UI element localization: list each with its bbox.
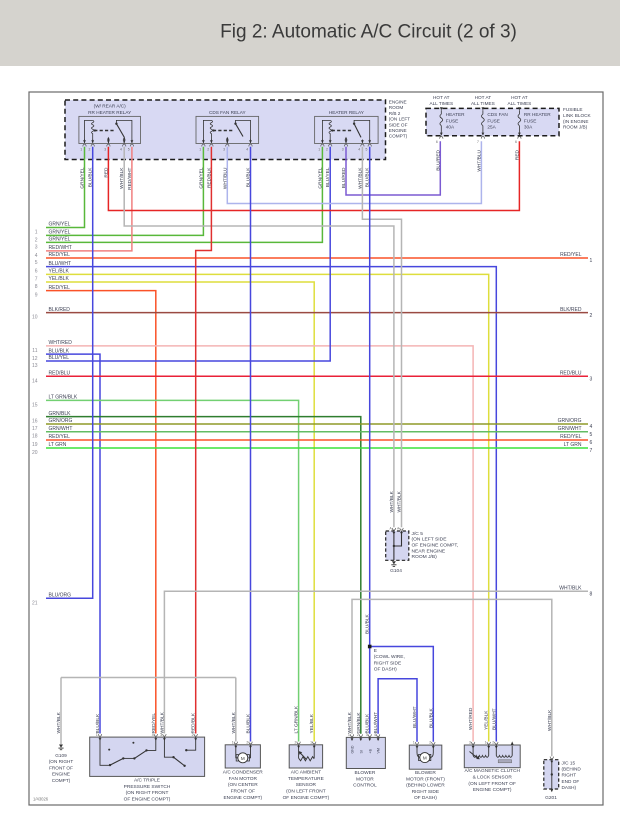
svg-text:RED/BLU: RED/BLU — [49, 371, 71, 377]
svg-text:GRN/WHT: GRN/WHT — [558, 426, 582, 432]
clutch pin numbers — [469, 741, 494, 745]
svg-text:1: 1 — [590, 258, 593, 264]
svg-text:PRESSURE SWITCH: PRESSURE SWITCH — [124, 784, 171, 790]
wire RED relay1 pin3 to RR HEATER fuse — [108, 141, 519, 210]
svg-text:(ON LEFT SIDE: (ON LEFT SIDE — [412, 537, 448, 543]
svg-text:(ON LEFT FRONT OF: (ON LEFT FRONT OF — [468, 781, 516, 787]
svg-text:MOTOR: MOTOR — [356, 776, 374, 782]
wire row 6 BLU/WHT — [46, 267, 496, 742]
wire row 10 BLK/RED — [46, 312, 588, 314]
wire row 16 GRN/BLK — [46, 417, 361, 734]
svg-text:ENGINE: ENGINE — [389, 100, 407, 105]
svg-text:17: 17 — [32, 426, 38, 432]
svg-text:1/43026: 1/43026 — [33, 797, 49, 802]
svg-text:GRN/WHT: GRN/WHT — [49, 426, 73, 432]
svg-text:WHT/BLK: WHT/BLK — [347, 711, 353, 733]
svg-text:YEL/BLK: YEL/BLK — [309, 713, 315, 733]
svg-text:BLOWER: BLOWER — [415, 770, 436, 776]
svg-text:GRN/YEL: GRN/YEL — [49, 237, 71, 243]
ground G109 — [58, 745, 63, 750]
wire row 20 LT GRN — [46, 447, 588, 449]
hot at all times label — [508, 95, 532, 106]
svg-text:HEATER: HEATER — [446, 112, 465, 117]
svg-text:(ON LEFT FRONT: (ON LEFT FRONT — [286, 789, 326, 795]
svg-text:4: 4 — [590, 424, 593, 430]
svg-text:TEMPERATURE: TEMPERATURE — [288, 776, 324, 782]
wire row 21 BLU/ORG — [46, 147, 93, 599]
condenser fan label — [223, 770, 264, 801]
wire WHT/BLK relay3 pin4 to J/C 5 — [362, 147, 401, 527]
svg-text:G109: G109 — [55, 753, 67, 758]
svg-text:2: 2 — [89, 147, 91, 151]
svg-text:(ON CENTER: (ON CENTER — [228, 782, 258, 788]
svg-text:RED/YEL: RED/YEL — [560, 252, 582, 258]
svg-text:ALL TIMES: ALL TIMES — [508, 101, 532, 106]
svg-text:BLU/WHT: BLU/WHT — [412, 706, 418, 728]
relay HEATER RELAY — [315, 110, 379, 147]
svg-text:ENGINE: ENGINE — [52, 772, 70, 777]
fuse CDS FAN 25A — [481, 107, 484, 139]
svg-text:DASH): DASH) — [562, 785, 577, 790]
svg-text:BLU/BLK: BLU/BLK — [428, 707, 434, 728]
svg-text:RED/WHT: RED/WHT — [49, 245, 72, 251]
fuse CDS FAN 25A label — [487, 112, 507, 129]
svg-text:BLOWER: BLOWER — [355, 770, 376, 776]
svg-text:HEATER RELAY: HEATER RELAY — [329, 110, 365, 115]
svg-text:40A: 40A — [446, 124, 455, 129]
svg-text:RED/YEL: RED/YEL — [151, 713, 157, 734]
wire RED/BLK relay2 pin2 to pressure switch — [196, 147, 212, 734]
svg-text:30A: 30A — [524, 124, 533, 129]
svg-text:GRN/ORG: GRN/ORG — [49, 418, 73, 424]
svg-text:OF DASH): OF DASH) — [414, 795, 437, 801]
svg-text:VM: VM — [377, 748, 381, 753]
junction connector J/C 5 — [386, 528, 409, 560]
svg-text:4: 4 — [152, 733, 154, 737]
svg-text:11: 11 — [32, 348, 37, 354]
pressure switch label — [124, 778, 171, 803]
svg-text:5: 5 — [590, 432, 593, 438]
svg-text:1: 1 — [310, 740, 312, 744]
fuse pin numbers — [436, 140, 517, 144]
svg-text:HOT AT: HOT AT — [433, 95, 450, 100]
svg-text:OF ENGINE COMPT,: OF ENGINE COMPT, — [412, 543, 459, 549]
svg-text:20: 20 — [32, 450, 38, 456]
svg-text:& LOCK SENSOR: & LOCK SENSOR — [473, 775, 513, 781]
svg-text:A/C CONDENSER: A/C CONDENSER — [223, 770, 264, 776]
svg-text:2: 2 — [429, 741, 431, 745]
svg-text:ENGINE: ENGINE — [389, 128, 407, 133]
svg-text:A/C AMBIENT: A/C AMBIENT — [291, 770, 321, 776]
pressure switch pin numbers — [96, 733, 194, 737]
wire WHT/BLK rail to G109 — [60, 678, 62, 745]
svg-text:ROOM J/B): ROOM J/B) — [412, 554, 438, 560]
svg-text:SENSOR: SENSOR — [296, 782, 317, 788]
svg-text:3: 3 — [366, 733, 368, 737]
svg-text:FUSIBLE: FUSIBLE — [563, 107, 583, 112]
svg-text:RED/BLK: RED/BLK — [191, 712, 197, 733]
svg-text:BLK/RED: BLK/RED — [560, 307, 582, 313]
svg-text:GRN/BLK: GRN/BLK — [49, 411, 72, 417]
blower control pin numbers — [348, 733, 376, 737]
wire row 8 YEL/BLK — [46, 282, 314, 742]
svg-text:3: 3 — [223, 147, 225, 151]
svg-text:10: 10 — [32, 315, 38, 321]
svg-text:1: 1 — [199, 147, 201, 151]
svg-text:LT GRN: LT GRN — [564, 442, 582, 448]
svg-text:RIGHT: RIGHT — [562, 773, 577, 778]
svg-text:A/C MAGNETIC CLUTCH: A/C MAGNETIC CLUTCH — [464, 768, 520, 774]
svg-text:GRN/YEL: GRN/YEL — [49, 222, 71, 228]
engine room relay block R/B 2 (dashed box) — [65, 100, 386, 160]
wire row 13 BLU/YEL — [46, 147, 330, 361]
wire WHT/BLU relay2 pin3 to CDS FAN fuse — [227, 141, 481, 203]
svg-text:RIGHT SIDE: RIGHT SIDE — [412, 789, 439, 795]
svg-text:1: 1 — [35, 230, 38, 236]
svg-text:RED/YEL: RED/YEL — [560, 434, 582, 440]
svg-text:RED/YEL: RED/YEL — [49, 285, 71, 291]
svg-text:2: 2 — [590, 313, 593, 319]
svg-text:2: 2 — [192, 733, 194, 737]
svg-text:Fig 2: Automatic A/C Circuit (: Fig 2: Automatic A/C Circuit (2 of 3) — [220, 22, 517, 43]
svg-text:4: 4 — [374, 733, 376, 737]
svg-text:SIDE OF: SIDE OF — [389, 122, 408, 127]
relay wire colour labels — [80, 167, 371, 190]
svg-text:END OF: END OF — [562, 779, 580, 784]
component A/C magnetic clutch and lock sensor — [464, 741, 520, 767]
svg-text:YEL/BLK: YEL/BLK — [49, 269, 70, 275]
svg-text:BLK/RED: BLK/RED — [49, 307, 71, 313]
fuse HEATER 40A — [440, 107, 443, 139]
blower motor (front) label — [406, 770, 445, 801]
svg-text:16: 16 — [32, 419, 38, 425]
svg-text:1: 1 — [413, 741, 415, 745]
node E junction dot — [368, 645, 372, 649]
wire WHT/BLK ground rail — [61, 677, 236, 679]
svg-text:BLU/ORG: BLU/ORG — [49, 593, 72, 599]
svg-text:GRN/YEL: GRN/YEL — [49, 230, 71, 236]
wire row 3 GRN/YEL — [46, 147, 322, 243]
svg-text:3: 3 — [35, 244, 38, 250]
svg-text:FAN MOTOR: FAN MOTOR — [229, 776, 258, 782]
blower motor pin numbers — [413, 741, 431, 745]
svg-text:(BEHIND LOWER: (BEHIND LOWER — [406, 783, 445, 789]
ambient sensor pin numbers — [295, 740, 313, 744]
wire row 14 RED/BLU — [46, 375, 588, 377]
svg-text:(ON RIGHT: (ON RIGHT — [49, 759, 74, 764]
bottom wire colour labels — [56, 705, 553, 733]
hot at all times label — [471, 95, 495, 106]
J/C 5 pin letters — [390, 527, 401, 531]
svg-text:5: 5 — [366, 147, 368, 151]
svg-text:13: 13 — [32, 363, 38, 369]
svg-text:E: E — [374, 648, 377, 654]
svg-text:3: 3 — [590, 377, 593, 383]
svg-text:OF DASH): OF DASH) — [374, 667, 397, 673]
svg-text:YEL/BLK: YEL/BLK — [484, 710, 490, 730]
svg-text:7: 7 — [590, 448, 593, 454]
svg-text:6: 6 — [35, 269, 38, 275]
wire WHT/BLK rail to pressure switch — [163, 678, 165, 734]
fusible link block label — [563, 107, 591, 129]
svg-text:(ON RIGHT FRONT: (ON RIGHT FRONT — [126, 790, 169, 796]
svg-text:WHT/BLK: WHT/BLK — [389, 490, 395, 512]
fuse HEATER 40A label — [446, 112, 465, 129]
svg-text:CDS FAN RELAY: CDS FAN RELAY — [209, 110, 247, 115]
relay pin numbers — [80, 147, 367, 151]
svg-text:WHT/RED: WHT/RED — [49, 340, 73, 346]
wire row 7 YEL/BLK — [46, 274, 489, 741]
wire row 5 RED/YEL — [46, 257, 588, 259]
ambient sensor label — [283, 770, 330, 801]
component blower motor control — [346, 734, 385, 768]
J/C 5 location label — [412, 531, 459, 560]
svg-text:7: 7 — [35, 276, 38, 282]
component A/C condenser fan motor — [225, 742, 260, 768]
svg-text:G201: G201 — [545, 795, 557, 801]
wire BLU/WHT blower motor control to blower motor front — [378, 679, 417, 742]
svg-text:3: 3 — [160, 733, 162, 737]
svg-text:ALL TIMES: ALL TIMES — [429, 101, 453, 106]
wire WHT/BLK relay1 pin4 to J/C 5 — [124, 147, 394, 527]
labels WHT/BLK at J/C 5 — [389, 490, 403, 512]
relay RR HEATER RELAY — [79, 104, 141, 147]
svg-text:BLU/WHT: BLU/WHT — [49, 261, 72, 267]
wire WHT/BLK row 8 right to ground rail — [164, 591, 588, 677]
svg-text:GRN/ORG: GRN/ORG — [558, 418, 582, 424]
svg-text:A/C TRIPLE: A/C TRIPLE — [134, 778, 160, 784]
engine room R/B 2 location label — [389, 100, 410, 139]
svg-text:1: 1 — [348, 733, 350, 737]
svg-text:6: 6 — [515, 140, 517, 144]
wire BLU/BLK relay2 pin4 to condenser fan motor — [250, 147, 252, 742]
svg-text:SI: SI — [359, 750, 363, 753]
svg-text:2: 2 — [246, 740, 248, 744]
svg-text:3: 3 — [104, 147, 106, 151]
svg-text:2: 2 — [295, 740, 297, 744]
component A/C ambient temperature sensor — [289, 742, 322, 768]
ground G104 — [391, 561, 396, 566]
svg-text:12: 12 — [32, 356, 38, 362]
node E label — [374, 648, 405, 673]
svg-text:WHT/BLK: WHT/BLK — [231, 711, 237, 733]
svg-text:4: 4 — [35, 253, 38, 259]
svg-text:R/B 2: R/B 2 — [389, 111, 401, 116]
svg-text:21: 21 — [32, 600, 38, 606]
svg-text:J/C 15: J/C 15 — [562, 761, 576, 766]
svg-text:9: 9 — [35, 293, 38, 299]
svg-text:8: 8 — [35, 284, 38, 290]
svg-text:ROOM: ROOM — [389, 105, 404, 110]
svg-text:(BEHIND: (BEHIND — [562, 767, 582, 772]
svg-text:5: 5 — [35, 260, 38, 266]
svg-text:G104: G104 — [390, 568, 402, 574]
wire row 18 GRN/WHT — [46, 431, 588, 433]
svg-text:25A: 25A — [487, 124, 496, 129]
wire row 19 RED/YEL — [46, 439, 588, 441]
svg-text:8: 8 — [590, 592, 593, 598]
svg-text:FUSE: FUSE — [524, 118, 537, 123]
svg-text:BLU/BLK: BLU/BLK — [365, 613, 371, 634]
svg-text:RED/YEL: RED/YEL — [49, 434, 71, 440]
wire row 2 GRN/YEL — [46, 147, 203, 236]
svg-text:COMPT): COMPT) — [52, 778, 71, 783]
fuse wire colour labels — [435, 149, 520, 171]
svg-text:(COWL WIRE,: (COWL WIRE, — [374, 654, 405, 660]
svg-text:WHT/BLK: WHT/BLK — [397, 490, 403, 512]
svg-text:2: 2 — [357, 733, 359, 737]
svg-text:4: 4 — [358, 147, 360, 151]
svg-text:6: 6 — [436, 140, 438, 144]
svg-text:4: 4 — [246, 147, 248, 151]
wire WHT/BLK blower motor control GND to J/C 15 — [352, 599, 552, 756]
fuse RR HEATER 30A label — [524, 112, 551, 129]
svg-text:BLU/BLK: BLU/BLK — [95, 713, 101, 734]
svg-text:BLU/BLK: BLU/BLK — [49, 348, 70, 354]
wire WHT/BLK rail to condenser fan motor — [235, 678, 237, 742]
wire row 4 RED/WHT — [46, 147, 132, 251]
wire row 15 LT GRN/BLK — [46, 400, 299, 741]
svg-text:WHT/RED: WHT/RED — [468, 707, 474, 730]
wire BLU/BLK node E to blower motor front — [370, 647, 434, 742]
G109 label — [49, 753, 74, 783]
svg-text:LT GRN/BLK: LT GRN/BLK — [294, 705, 300, 733]
fusible link block (dashed box) — [426, 108, 559, 135]
svg-text:WHT/BLK: WHT/BLK — [56, 711, 62, 733]
wire BLU/BLK relay3 pin5 to node E and blower motor control — [369, 147, 371, 734]
svg-text:LINK BLOCK: LINK BLOCK — [563, 113, 591, 118]
svg-text:RED/YEL: RED/YEL — [49, 252, 71, 258]
svg-text:14: 14 — [32, 378, 38, 384]
svg-text:1: 1 — [318, 147, 320, 151]
svg-text:2: 2 — [326, 147, 328, 151]
wire row 1 GRN/YEL — [46, 147, 85, 228]
svg-text:4: 4 — [120, 147, 122, 151]
svg-text:YEL/BLK: YEL/BLK — [49, 276, 70, 282]
clutch label — [464, 768, 520, 793]
svg-text:1: 1 — [80, 147, 82, 151]
svg-text:BLU/BLK: BLU/BLK — [365, 713, 371, 734]
svg-text:RIGHT SIDE: RIGHT SIDE — [374, 660, 401, 666]
svg-text:2: 2 — [35, 237, 38, 243]
svg-text:NEAR ENGINE: NEAR ENGINE — [412, 548, 446, 554]
svg-text:1: 1 — [232, 740, 234, 744]
svg-text:(W/ REAR A/C): (W/ REAR A/C) — [94, 104, 126, 109]
svg-text:ALL TIMES: ALL TIMES — [471, 101, 495, 106]
svg-text:RR HEATER: RR HEATER — [524, 112, 551, 117]
svg-text:CONTROL: CONTROL — [353, 783, 377, 789]
svg-text:5: 5 — [128, 147, 130, 151]
svg-text:HOT AT: HOT AT — [475, 95, 492, 100]
wire row 12 BLU/BLK — [46, 354, 100, 733]
component A/C triple pressure switch — [90, 734, 205, 776]
svg-text:GRN/BLK: GRN/BLK — [356, 712, 362, 734]
svg-text:2: 2 — [207, 147, 209, 151]
svg-text:HOT AT: HOT AT — [511, 95, 528, 100]
svg-text:1: 1 — [96, 733, 98, 737]
svg-text:LT GRN: LT GRN — [49, 442, 67, 448]
svg-text:MOTOR (FRONT): MOTOR (FRONT) — [406, 776, 445, 782]
svg-text:COMPT): COMPT) — [389, 134, 408, 139]
svg-text:FUSE: FUSE — [446, 118, 459, 123]
svg-text:M: M — [423, 756, 427, 761]
title bar — [0, 0, 620, 66]
wire BLU/RED relay3 pin3 to HEATER fuse — [346, 141, 440, 195]
svg-text:FUSE: FUSE — [487, 118, 500, 123]
svg-text:OF ENGINE COMPT): OF ENGINE COMPT) — [124, 796, 171, 802]
relay CDS FAN RELAY — [196, 110, 259, 147]
svg-text:(IN ENGINE: (IN ENGINE — [563, 119, 589, 124]
svg-text:WHT/BLK: WHT/BLK — [547, 709, 553, 731]
svg-text:ENGINE COMPT): ENGINE COMPT) — [473, 787, 512, 793]
wire row 17 GRN/ORG — [46, 423, 588, 425]
svg-text:BLU/WHT: BLU/WHT — [373, 712, 379, 734]
condenser fan pin numbers — [232, 740, 249, 744]
svg-text:RED/BLU: RED/BLU — [560, 371, 582, 377]
wire row 9 RED/YEL — [46, 291, 156, 734]
svg-text:19: 19 — [32, 442, 38, 448]
svg-text:7: 7 — [477, 140, 479, 144]
svg-text:18: 18 — [32, 434, 38, 440]
svg-text:BLU/YEL: BLU/YEL — [49, 355, 70, 361]
svg-text:+B: +B — [368, 748, 372, 753]
svg-text:BLU/BLK: BLU/BLK — [246, 713, 252, 734]
svg-text:WHT/BLK: WHT/BLK — [159, 711, 165, 733]
svg-text:ROOM J/B): ROOM J/B) — [563, 125, 588, 130]
J/C 15 location label — [562, 761, 582, 790]
component blower motor (front) — [409, 742, 442, 769]
wire row 11 WHT/RED — [46, 346, 473, 742]
svg-text:FRONT OF: FRONT OF — [231, 789, 255, 795]
svg-text:(ON LEFT: (ON LEFT — [389, 117, 410, 122]
svg-text:OF ENGINE COMPT): OF ENGINE COMPT) — [283, 795, 330, 801]
svg-text:RR HEATER RELAY: RR HEATER RELAY — [88, 110, 132, 115]
blower motor control label — [353, 770, 377, 789]
svg-text:ENGINE COMPT): ENGINE COMPT) — [223, 795, 262, 801]
svg-text:GND: GND — [351, 745, 355, 753]
svg-text:BLU/WHT: BLU/WHT — [491, 708, 497, 730]
svg-text:CDS FAN: CDS FAN — [487, 112, 507, 117]
hot at all times label — [429, 95, 453, 106]
svg-text:FRONT OF: FRONT OF — [49, 765, 73, 770]
svg-text:6: 6 — [590, 440, 593, 446]
fuse RR HEATER 30A — [518, 107, 521, 139]
svg-text:J/C 5: J/C 5 — [412, 531, 424, 537]
svg-text:2: 2 — [492, 741, 494, 745]
svg-text:3: 3 — [342, 147, 344, 151]
svg-text:3: 3 — [469, 741, 471, 745]
junction connector J/C 15 — [544, 757, 559, 793]
svg-text:M: M — [241, 756, 245, 761]
svg-text:LT GRN/BLK: LT GRN/BLK — [49, 395, 78, 401]
svg-text:1: 1 — [485, 741, 487, 745]
svg-text:15: 15 — [32, 402, 38, 408]
